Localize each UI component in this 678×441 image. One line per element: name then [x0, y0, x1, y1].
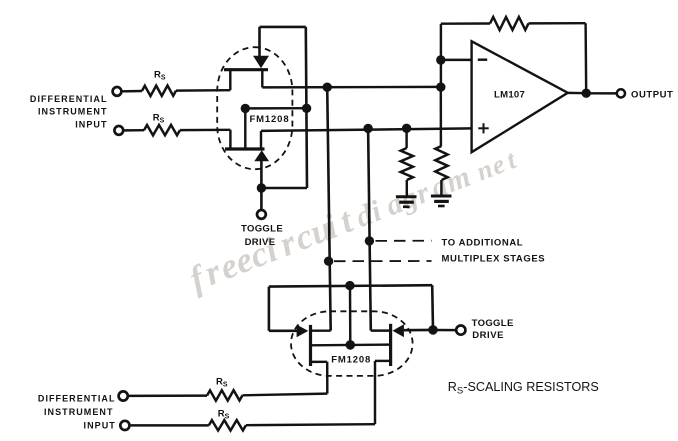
svg-text:FM1208: FM1208: [331, 355, 371, 366]
svg-text:.net: .net: [457, 144, 521, 193]
svg-text:LM107: LM107: [494, 90, 525, 101]
svg-text:RS-SCALING RESISTORS: RS-SCALING RESISTORS: [448, 380, 599, 396]
svg-text:RS: RS: [153, 113, 165, 125]
svg-text:DIFFERENTIAL: DIFFERENTIAL: [30, 94, 108, 104]
svg-text:INSTRUMENT: INSTRUMENT: [38, 107, 108, 117]
svg-text:DRIVE: DRIVE: [245, 237, 276, 248]
svg-text:DRIVE: DRIVE: [472, 330, 504, 341]
svg-text:OUTPUT: OUTPUT: [631, 89, 673, 100]
svg-text:MULTIPLEX STAGES: MULTIPLEX STAGES: [442, 253, 546, 264]
svg-text:INSTRUMENT: INSTRUMENT: [44, 407, 114, 417]
svg-text:DIFFERENTIAL: DIFFERENTIAL: [38, 393, 116, 403]
svg-text:INPUT: INPUT: [84, 420, 116, 430]
svg-text:TOGGLE: TOGGLE: [241, 224, 283, 235]
svg-text:freecircuit: freecircuit: [184, 199, 359, 298]
svg-text:INPUT: INPUT: [75, 120, 107, 130]
svg-text:TOGGLE: TOGGLE: [472, 318, 514, 329]
svg-text:TO ADDITIONAL: TO ADDITIONAL: [442, 237, 524, 248]
svg-text:FM1208: FM1208: [250, 114, 290, 125]
svg-text:RS: RS: [154, 70, 166, 82]
svg-text:RS: RS: [218, 409, 230, 421]
svg-text:RS: RS: [216, 377, 228, 389]
